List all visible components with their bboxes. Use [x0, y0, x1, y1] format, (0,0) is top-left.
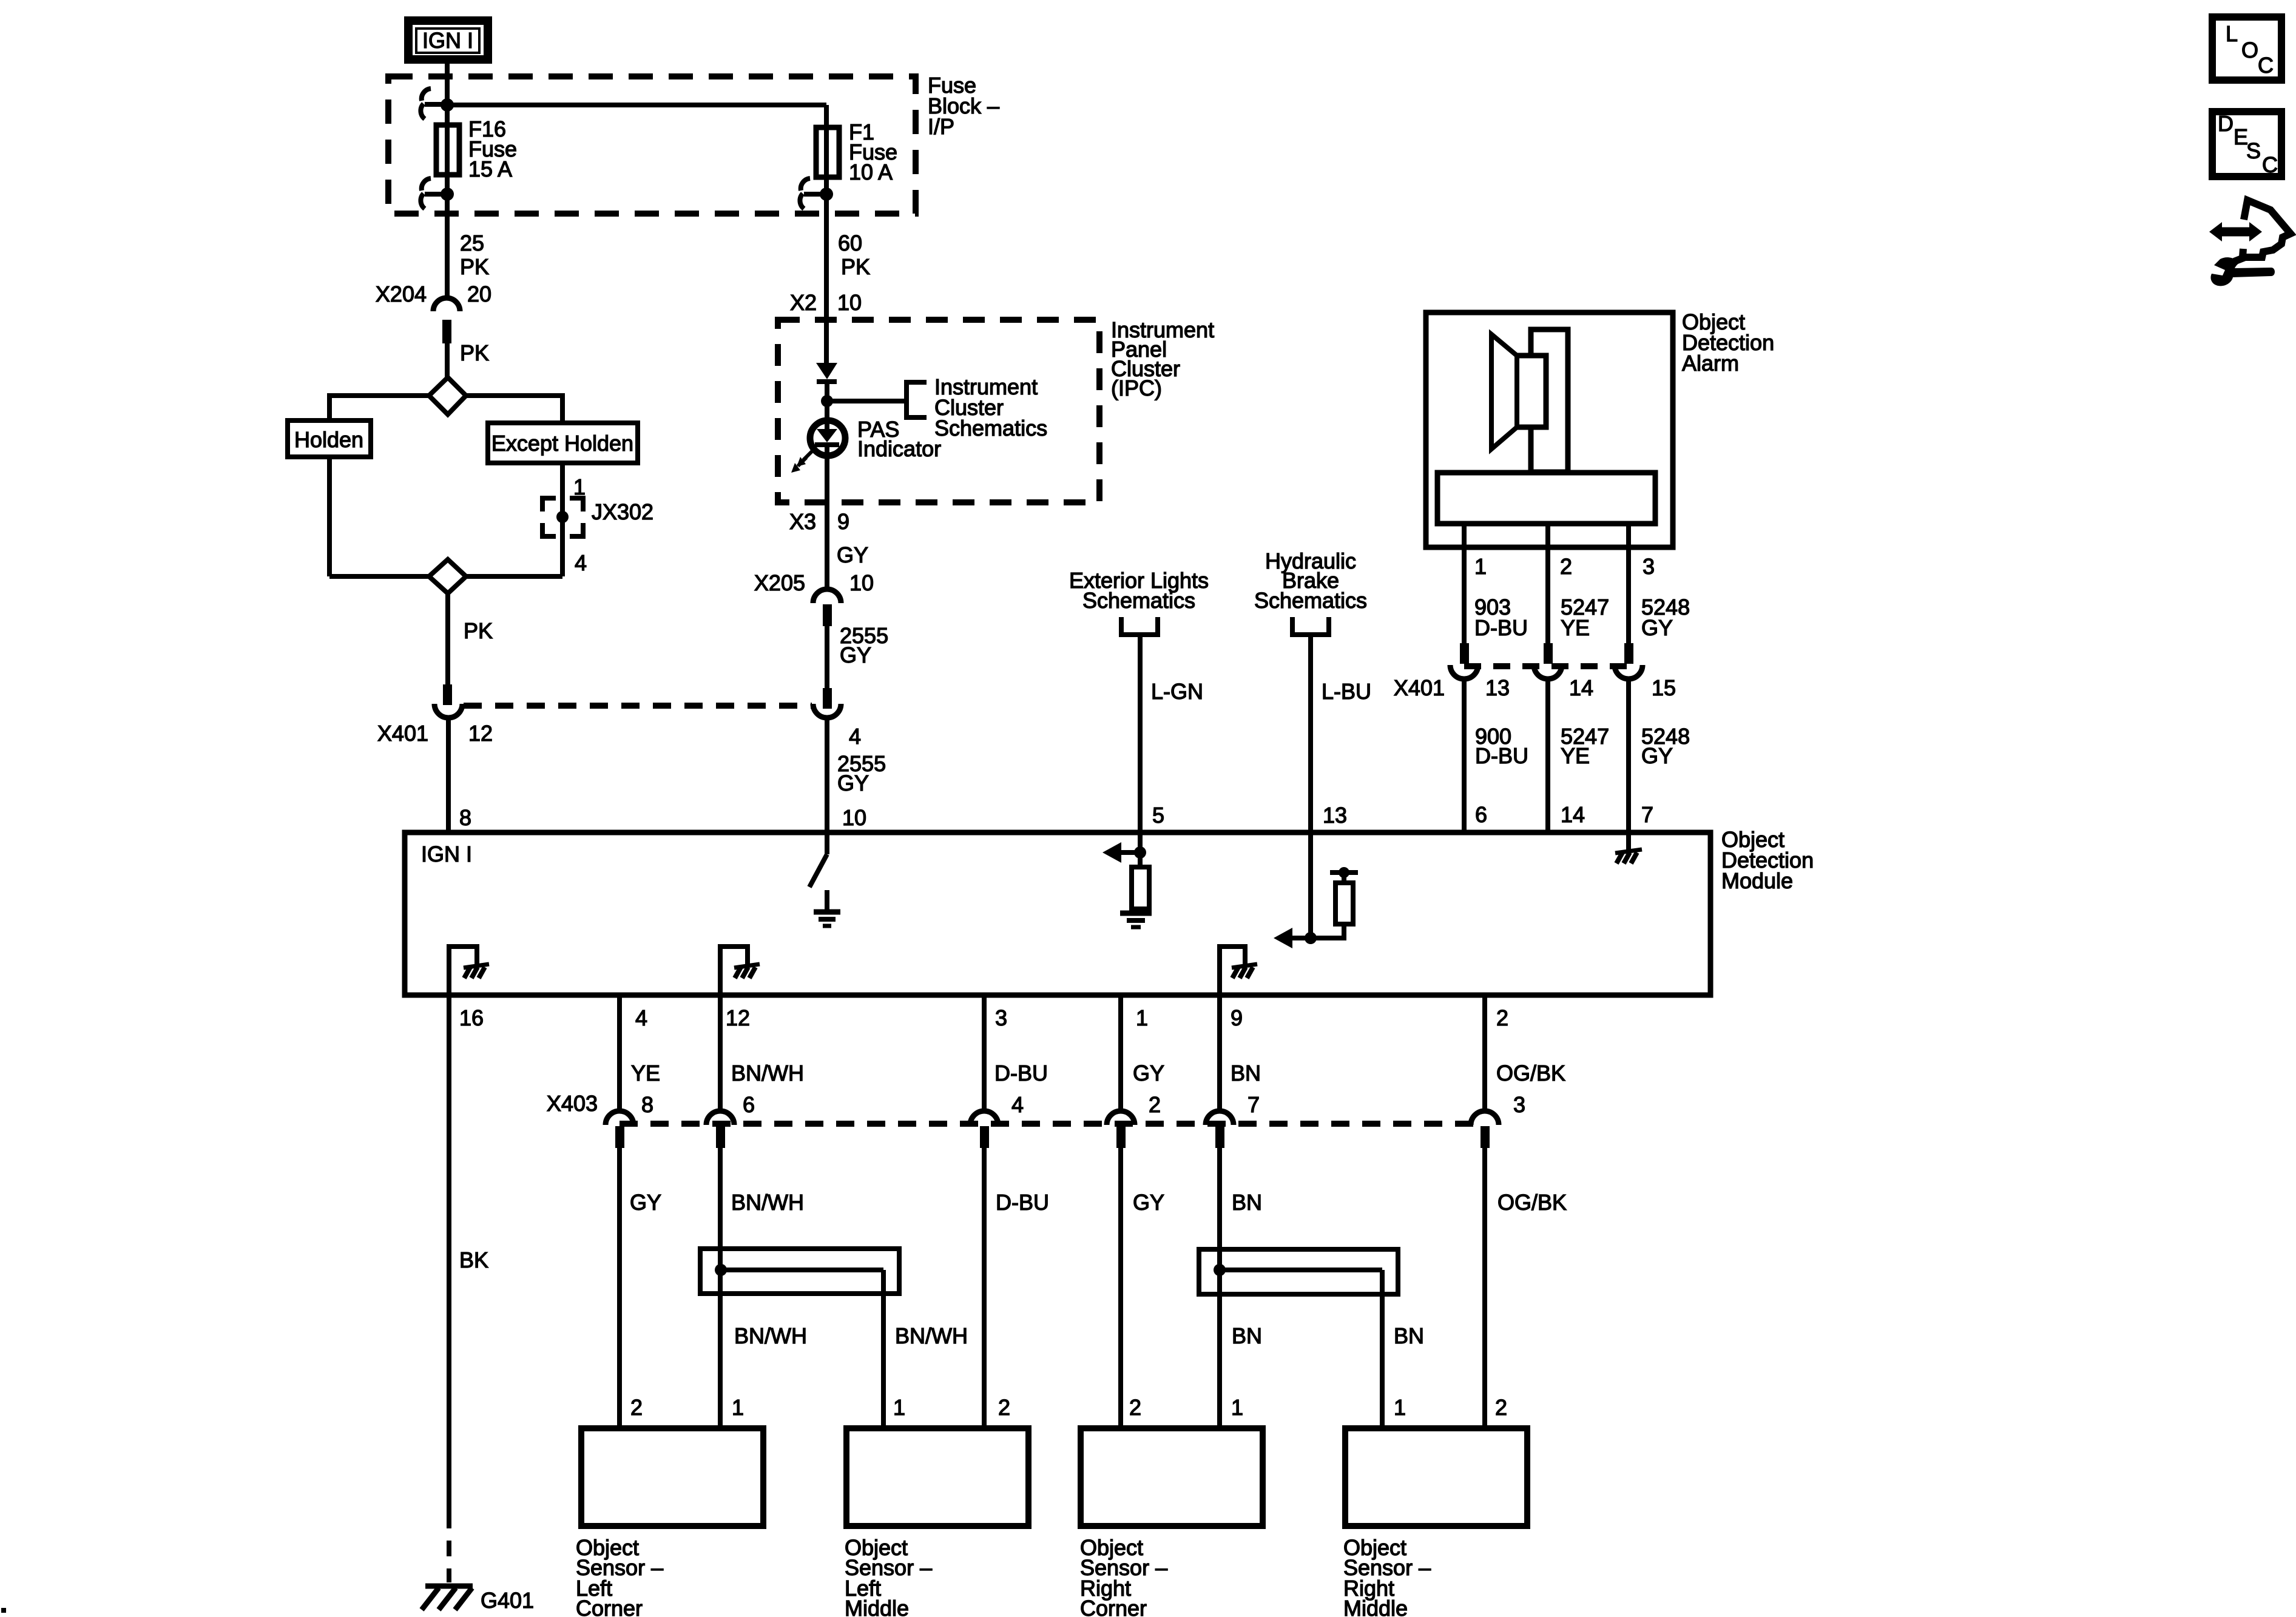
- Instrument Panel Cluster dashed outline: [778, 320, 1099, 502]
- power label IGN I (top): [408, 21, 488, 59]
- wire bus down to F1: [824, 105, 829, 209]
- fuse F16: [436, 125, 459, 175]
- wire D-BU (pin 3 to X403-4): [982, 995, 987, 1112]
- wire 5248 GY to module pin 7: [1626, 678, 1631, 835]
- svg-text:GY: GY: [1641, 615, 1673, 640]
- svg-text:C: C: [2258, 53, 2274, 78]
- wire 2555 GY: [825, 626, 829, 688]
- svg-text:X3: X3: [789, 509, 816, 534]
- label F1 Fuse 10 A: [849, 120, 897, 184]
- svg-text:8: 8: [641, 1092, 653, 1117]
- icon LOC: [2212, 17, 2281, 80]
- fuse holder clip F1 bottom: [800, 178, 826, 209]
- svg-text:L-BU: L-BU: [1322, 679, 1371, 704]
- svg-text:15: 15: [1652, 675, 1676, 700]
- connector X403 pin 7: [1206, 1092, 1260, 1148]
- svg-text:15 A: 15 A: [468, 157, 512, 181]
- label 60 PK: [838, 231, 870, 279]
- node junction pin 5: [1134, 846, 1146, 859]
- svg-text:(IPC): (IPC): [1111, 376, 1162, 400]
- wire 5247 YE to module pin 14: [1545, 678, 1550, 835]
- wire alarm pin 1: [1462, 524, 1467, 643]
- svg-text:Indicator: Indicator: [857, 436, 941, 461]
- svg-text:4: 4: [575, 550, 587, 575]
- svg-text:L-GN: L-GN: [1151, 679, 1203, 704]
- svg-text:2: 2: [630, 1395, 643, 1420]
- svg-text:5: 5: [1152, 803, 1164, 828]
- svg-text:1: 1: [1136, 1005, 1148, 1030]
- svg-text:YE: YE: [631, 1061, 660, 1085]
- svg-text:6: 6: [1475, 802, 1487, 827]
- wire PAS to X3: [825, 446, 829, 590]
- svg-text:6: 6: [743, 1092, 755, 1117]
- label 25 PK: [460, 231, 489, 279]
- svg-text:X2: X2: [790, 290, 817, 315]
- svg-text:2: 2: [1129, 1395, 1141, 1420]
- svg-text:BN/WH: BN/WH: [734, 1323, 807, 1348]
- wire junction to pull-up resistor: [1311, 924, 1344, 938]
- label Instrument Panel Cluster (IPC): [1111, 317, 1214, 400]
- svg-text:G401: G401: [481, 1588, 534, 1613]
- svg-text:1: 1: [573, 474, 586, 499]
- label Fuse Block - I/P: [928, 73, 999, 139]
- wire to Holden branch: [329, 396, 429, 420]
- svg-text:X403: X403: [547, 1091, 598, 1116]
- wire 60 PK below F1: [824, 209, 829, 320]
- label 900 D-BU: [1475, 724, 1528, 768]
- icon wrench: [2210, 257, 2275, 286]
- svg-text:4: 4: [849, 724, 861, 749]
- svg-text:BN: BN: [1232, 1323, 1262, 1348]
- svg-text:BN: BN: [1231, 1061, 1261, 1085]
- svg-text:PK: PK: [464, 618, 493, 643]
- node junction at F1 bottom: [820, 187, 833, 201]
- label 2555 GY: [840, 623, 888, 667]
- svg-text:9: 9: [837, 509, 849, 534]
- svg-text:4: 4: [1011, 1092, 1024, 1117]
- svg-text:12: 12: [468, 721, 493, 746]
- svg-text:GY: GY: [840, 643, 871, 667]
- wire BK dashed tail: [447, 1513, 451, 1582]
- svg-text:60: 60: [838, 231, 862, 255]
- page mark: [1, 1608, 6, 1613]
- Object Sensor Right Middle box: [1343, 1428, 1527, 1617]
- wire IGN I to fuse block: [445, 64, 450, 105]
- svg-text:2: 2: [1560, 554, 1572, 579]
- ground (module internal, pin 5): [1120, 909, 1152, 927]
- svg-text:10: 10: [837, 290, 862, 315]
- ground bracket (module internal, pin 12): [720, 947, 760, 995]
- diode CR (IPC): [816, 363, 837, 382]
- fuse F1: [816, 127, 839, 177]
- connector X204 pin 20: [376, 282, 491, 343]
- wire diode to PAS indicator: [825, 382, 829, 419]
- wire OG/BK (X403-3 to right middle sensor pin 2): [1482, 1148, 1487, 1425]
- Object Detection Alarm box: [1426, 312, 1673, 547]
- wire tap to cluster reference: [827, 399, 907, 403]
- svg-text:D-BU: D-BU: [1474, 615, 1528, 640]
- wire 900 D-BU to module pin 6: [1462, 678, 1467, 835]
- svg-text:1: 1: [1474, 554, 1487, 579]
- wire GY (X403-2 to right corner sensor pin 2): [1118, 1148, 1123, 1425]
- svg-text:Middle: Middle: [845, 1596, 909, 1617]
- connector X401 dashed gang line: [464, 703, 812, 709]
- label 5247 YE: [1561, 595, 1609, 640]
- svg-text:X401: X401: [1394, 675, 1445, 700]
- wire through F16: [445, 105, 450, 209]
- svg-text:O: O: [2241, 38, 2258, 62]
- wire PK to splitter diamond: [445, 343, 450, 377]
- svg-text:2: 2: [998, 1395, 1010, 1420]
- Except Holden option box: [488, 423, 638, 463]
- connector X401 pin 12: [377, 684, 493, 746]
- wire to module pin 8: [446, 717, 451, 835]
- lamp PAS Indicator (LED): [791, 417, 941, 473]
- wire BN/WH branch (splice to left middle sensor pin 1): [881, 1270, 886, 1425]
- wire BN (X403-7 to right corner sensor pin 1): [1217, 1148, 1222, 1425]
- svg-text:Corner: Corner: [1080, 1596, 1147, 1617]
- svg-text:I/P: I/P: [928, 114, 954, 139]
- svg-text:Module: Module: [1721, 868, 1793, 893]
- wire YE (pin 4 to X403-8): [617, 995, 622, 1112]
- wire BN/WH (X403-6 to left corner sensor pin 1): [718, 1148, 723, 1425]
- svg-text:16: 16: [459, 1005, 484, 1030]
- node merge diamond bottom: [429, 559, 466, 593]
- svg-text:GY: GY: [837, 771, 869, 795]
- svg-text:X205: X205: [754, 570, 805, 595]
- wire BN (pin 9 to X403-7): [1217, 995, 1222, 1112]
- internal rail stub with node: [1330, 867, 1358, 883]
- connector X2 pin 10: [790, 290, 862, 315]
- splice pack (right, BN): [1199, 1249, 1398, 1294]
- svg-text:GY: GY: [837, 542, 868, 567]
- svg-text:D: D: [2218, 111, 2234, 136]
- splice JX302: [542, 498, 653, 536]
- svg-text:1: 1: [1394, 1395, 1406, 1420]
- svg-text:Schematics: Schematics: [1082, 588, 1195, 613]
- svg-text:Schematics: Schematics: [1254, 588, 1367, 613]
- wire pin 5 internal: [1138, 832, 1143, 867]
- wire Except Holden pin 1 down: [560, 463, 565, 576]
- connector X403 pin 4: [970, 1092, 1024, 1148]
- connector X401 pin 4: [813, 688, 861, 749]
- svg-text:IGN I: IGN I: [421, 842, 472, 866]
- node junction at F16 bottom: [441, 187, 454, 201]
- svg-text:YE: YE: [1561, 615, 1590, 640]
- label F16 Fuse 15 A: [468, 116, 517, 181]
- wire L-BU to module pin 13: [1308, 635, 1313, 835]
- svg-text:D-BU: D-BU: [994, 1061, 1048, 1085]
- svg-text:Middle: Middle: [1343, 1596, 1408, 1617]
- off-page reference Exterior Lights Schematics: [1069, 568, 1209, 635]
- wire PK below merge: [445, 593, 450, 684]
- svg-text:1: 1: [893, 1395, 905, 1420]
- label Object Detection Alarm: [1682, 309, 1774, 376]
- wire Holden branch to diamond: [329, 574, 429, 579]
- svg-text:PK: PK: [460, 254, 489, 279]
- svg-text:10: 10: [849, 570, 874, 595]
- connector X401 dashed gang line (right): [1464, 663, 1629, 669]
- svg-text:3: 3: [995, 1005, 1007, 1030]
- label Object Detection Module: [1721, 827, 1814, 893]
- ground hatch (module internal, pin 7): [1615, 832, 1642, 863]
- connector X401 pin 15: [1615, 643, 1676, 700]
- wire into IPC: [824, 320, 829, 363]
- resistor R (module internal, pin 5): [1132, 867, 1149, 909]
- svg-text:L: L: [2226, 21, 2238, 46]
- node junction at IPC tap: [821, 395, 833, 407]
- svg-text:PK: PK: [460, 340, 489, 365]
- connector X403 pin 3: [1471, 1092, 1525, 1148]
- svg-text:BN/WH: BN/WH: [731, 1061, 804, 1085]
- svg-text:X204: X204: [376, 282, 427, 306]
- fuse holder clip F16 bottom: [420, 178, 447, 209]
- Object Sensor Left Middle box: [845, 1428, 1028, 1617]
- connector X205 pin 10: [754, 570, 874, 626]
- svg-text:JX302: JX302: [592, 499, 653, 524]
- Object Sensor Left Corner box: [576, 1428, 763, 1617]
- label 5248 GY: [1641, 724, 1690, 768]
- resistor R (module internal, pin 13): [1335, 883, 1353, 924]
- svg-text:14: 14: [1569, 675, 1593, 700]
- off-page bracket Instrument Cluster Schematics: [907, 374, 1047, 441]
- svg-text:10 A: 10 A: [849, 160, 893, 184]
- svg-text:2: 2: [1149, 1092, 1161, 1117]
- node junction pin 13: [1305, 932, 1317, 944]
- svg-text:S: S: [2246, 138, 2261, 163]
- svg-text:Except Holden: Except Holden: [491, 431, 633, 456]
- wire circuit 25 PK below F16: [445, 209, 450, 299]
- Holden option box: [288, 420, 371, 457]
- svg-text:C: C: [2262, 152, 2278, 177]
- svg-text:25: 25: [460, 231, 484, 255]
- svg-text:10: 10: [842, 805, 866, 830]
- svg-text:BK: BK: [459, 1247, 488, 1272]
- fuse holder clip F16 top: [420, 89, 447, 119]
- label 903 D-BU: [1474, 595, 1528, 640]
- ground bracket (module internal, pin 16): [449, 947, 489, 995]
- svg-text:20: 20: [467, 282, 491, 306]
- wire bus inside fuse block: [447, 103, 826, 107]
- wire BK (pin 16 to G401): [447, 995, 451, 1513]
- svg-text:BN: BN: [1394, 1323, 1424, 1348]
- label 5247 YE: [1561, 724, 1609, 768]
- wire GY (pin 1 to X403-2): [1118, 995, 1123, 1112]
- svg-text:GY: GY: [1641, 743, 1673, 768]
- svg-text:1: 1: [1231, 1395, 1243, 1420]
- Object Sensor Right Corner box: [1080, 1428, 1263, 1617]
- connector X3 pin 9: [789, 509, 849, 534]
- switch S1 inside module (pin 10): [809, 832, 827, 887]
- svg-text:Schematics: Schematics: [934, 416, 1047, 441]
- speaker pedestal: [1437, 473, 1655, 524]
- svg-text:D-BU: D-BU: [996, 1190, 1049, 1215]
- wire D-BU (X403-4 to left middle sensor pin 2): [982, 1148, 987, 1425]
- svg-text:OG/BK: OG/BK: [1496, 1061, 1565, 1085]
- label 2555 GY: [837, 751, 886, 795]
- svg-text:3: 3: [1643, 554, 1655, 579]
- ground (module internal, switch): [814, 890, 840, 926]
- svg-text:BN: BN: [1232, 1190, 1262, 1215]
- svg-text:BN/WH: BN/WH: [731, 1190, 804, 1215]
- node junction at F16 top: [441, 98, 454, 112]
- svg-text:GY: GY: [630, 1190, 661, 1215]
- speaker symbol (alarm): [1491, 329, 1568, 472]
- wire L-GN to module pin 5: [1138, 635, 1143, 835]
- svg-text:7: 7: [1641, 802, 1653, 827]
- wire alarm pin 2: [1545, 524, 1550, 643]
- connector X401 pin 13: [1394, 643, 1510, 700]
- svg-text:9: 9: [1231, 1005, 1243, 1030]
- svg-text:Alarm: Alarm: [1682, 351, 1739, 376]
- icon DESC: [2212, 111, 2281, 177]
- wire Holden branch down: [327, 457, 332, 576]
- svg-text:7: 7: [1248, 1092, 1260, 1117]
- svg-text:4: 4: [635, 1005, 647, 1030]
- svg-text:IGN I: IGN I: [422, 28, 473, 53]
- wire GY (X403-8 to left corner sensor pin 2): [617, 1148, 622, 1425]
- svg-text:X401: X401: [377, 721, 428, 746]
- fuse block I/P dashed outline: [388, 76, 916, 214]
- wire Except branch to diamond: [466, 574, 562, 579]
- off-page reference Hydraulic Brake Schematics: [1254, 549, 1367, 635]
- svg-text:2: 2: [1495, 1395, 1507, 1420]
- node splitter diamond top: [429, 377, 466, 414]
- wire BN/WH (pin 12 to X403-6): [718, 995, 723, 1112]
- svg-text:14: 14: [1561, 802, 1585, 827]
- svg-text:PK: PK: [841, 254, 870, 279]
- module U1 Object Detection Module: [405, 832, 1710, 995]
- svg-text:D-BU: D-BU: [1475, 743, 1528, 768]
- wire BN branch (splice to right middle sensor pin 1): [1380, 1270, 1385, 1425]
- splice pack (left, BN/WH): [700, 1249, 899, 1294]
- svg-text:1: 1: [732, 1395, 744, 1420]
- svg-text:OG/BK: OG/BK: [1497, 1190, 1567, 1215]
- connector X401 pin 14: [1534, 643, 1593, 700]
- connector X403 pin 8: [547, 1091, 653, 1148]
- wire 2555 GY to module pin 10: [825, 717, 829, 835]
- ground bracket (module internal, pin 9): [1220, 947, 1257, 995]
- wire OG/BK (pin 2 to X403-3): [1482, 995, 1487, 1112]
- svg-text:Holden: Holden: [294, 427, 363, 452]
- connector X403 dashed gang line: [620, 1121, 1485, 1127]
- signal arrow (pin 5 input): [1102, 842, 1140, 863]
- svg-text:GY: GY: [1133, 1061, 1164, 1085]
- svg-text:Corner: Corner: [576, 1596, 643, 1617]
- connector X403 pin 2: [1107, 1092, 1161, 1148]
- wire to Except Holden branch: [466, 396, 562, 423]
- svg-text:YE: YE: [1561, 743, 1590, 768]
- connector X403 pin 6: [706, 1092, 755, 1148]
- svg-text:13: 13: [1485, 675, 1510, 700]
- wire alarm pin 3: [1626, 524, 1631, 643]
- svg-text:13: 13: [1323, 803, 1347, 828]
- signal arrow (pin 13 input): [1274, 928, 1311, 948]
- icon adjust arrow: [2209, 200, 2291, 262]
- svg-text:3: 3: [1513, 1092, 1525, 1117]
- ground G401: [422, 1586, 534, 1613]
- svg-text:GY: GY: [1133, 1190, 1164, 1215]
- wire pin 13 internal: [1308, 832, 1313, 938]
- label 5248 GY: [1641, 595, 1690, 640]
- svg-text:BN/WH: BN/WH: [895, 1323, 968, 1348]
- svg-text:8: 8: [459, 805, 471, 830]
- svg-text:12: 12: [726, 1005, 750, 1030]
- svg-text:2: 2: [1496, 1005, 1508, 1030]
